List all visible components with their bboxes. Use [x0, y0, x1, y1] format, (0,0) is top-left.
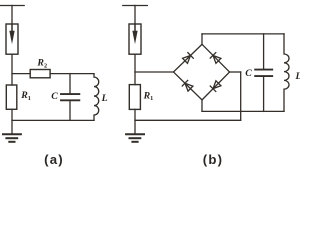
diode D1 upper-left	[182, 53, 193, 64]
bottom rail (a)	[12, 119, 94, 121]
svg-text:(a): (a)	[44, 152, 64, 167]
top terminal bar (a)	[0, 5, 24, 7]
diode D2 upper-right	[210, 53, 221, 64]
wire bridge bottom vertex to tank bottom rail (b)	[201, 100, 203, 112]
wire bridge top vertex to top rail (b)	[201, 34, 203, 44]
svg-text:C: C	[51, 91, 58, 102]
current source arrow (b)	[134, 24, 136, 33]
inductor L coil (b)	[284, 34, 289, 112]
svg-text:(b): (b)	[203, 152, 223, 167]
capacitor C plates (b)	[255, 69, 272, 71]
resistor R2 box	[30, 70, 50, 78]
wire source to node / R1 (b)	[134, 54, 136, 84]
diode D3 lower-left	[182, 80, 193, 91]
capacitor C bottom lead (b)	[263, 76, 265, 111]
svg-text:L: L	[295, 71, 301, 82]
current source arrow (a)	[11, 24, 13, 33]
ground (b)	[126, 133, 144, 135]
current source I box (a)	[6, 24, 18, 54]
capacitor C top lead (b)	[263, 34, 265, 70]
resistor R1 box (b)	[129, 85, 140, 110]
wire top bar to current source (b)	[134, 6, 136, 25]
wire top bar to current source (a)	[11, 6, 13, 25]
top terminal bar (b)	[123, 5, 148, 7]
capacitor C plates (a)	[61, 93, 79, 95]
bottom rail (b)	[135, 119, 241, 121]
diode bridge diamond wires	[174, 44, 203, 72]
diode D4 lower-right	[210, 81, 221, 92]
wire source to node / R1 (a)	[11, 54, 13, 85]
node A wire to R2 (a)	[12, 73, 30, 75]
svg-text:L: L	[101, 93, 108, 104]
ground (a)	[3, 133, 21, 135]
capacitor C bottom lead (a)	[69, 100, 71, 120]
resistor R1 box (a)	[6, 85, 16, 109]
inductor L coil (a)	[94, 74, 99, 121]
current source I box (b)	[129, 24, 141, 54]
wire bottom rail up to bridge right vertex	[240, 72, 242, 120]
wire R1 to ground (a)	[11, 109, 13, 134]
wire R2 to tank top (a)	[50, 73, 94, 75]
wire R1 to ground (b)	[134, 109, 136, 134]
capacitor C top lead (a)	[69, 74, 71, 95]
node wire to bridge left vertex (b)	[135, 71, 174, 73]
svg-text:C: C	[245, 68, 252, 79]
